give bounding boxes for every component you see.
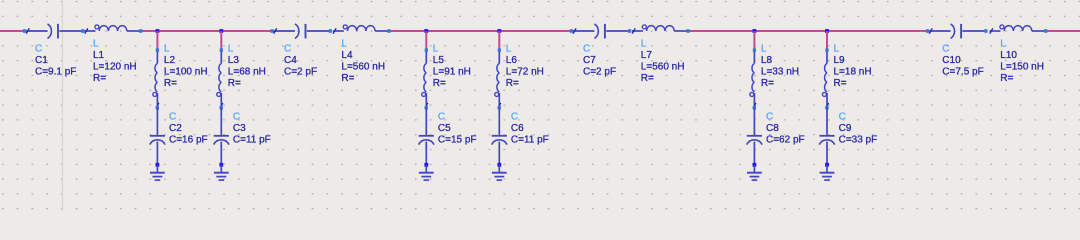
inductor L1 [85,25,143,34]
svg-text:R=: R= [761,78,774,89]
inductor L10 [990,25,1048,34]
C9 labels [839,112,878,146]
svg-text:C=11 pF: C=11 pF [511,135,549,146]
svg-text:L: L [341,38,347,49]
svg-text:L=120 nH: L=120 nH [93,61,137,72]
capacitor C1 [23,24,84,39]
inductor L8 [750,48,756,109]
svg-text:C: C [942,44,949,55]
svg-text:L=91 nH: L=91 nH [433,66,471,77]
wire shunt stub 1 [156,31,158,49]
svg-text:C7: C7 [583,55,596,66]
svg-text:C=11 pF: C=11 pF [233,135,271,146]
wire node 6 to C10 [827,30,928,32]
capacitor C7 [570,24,632,39]
svg-text:R=: R= [1000,73,1013,84]
svg-text:R=: R= [341,73,354,84]
capacitor C6 [492,108,507,167]
svg-text:C=9.1 pF: C=9.1 pF [35,67,76,78]
L9 labels [834,43,872,89]
ground 6 [820,165,835,180]
L1 labels [93,38,137,84]
junction node 3 [424,29,428,33]
svg-text:C6: C6 [511,123,524,134]
junction node 1 [156,29,160,33]
svg-text:C: C [438,112,445,123]
svg-text:C: C [35,44,42,55]
L7 labels [641,38,685,84]
L5 labels [433,43,471,89]
svg-text:C: C [169,112,176,123]
svg-text:R=: R= [834,78,847,89]
C7 labels [583,44,616,78]
ground 4 [492,165,507,180]
capacitor C8 [747,108,762,167]
svg-text:L: L [93,38,99,49]
svg-text:L2: L2 [164,55,176,66]
wire node 2 to C4 [221,30,271,32]
svg-text:C=2 pF: C=2 pF [284,67,317,78]
svg-text:L: L [761,43,767,54]
L10 labels [1000,38,1044,84]
C1 labels [35,44,76,78]
L4 labels [341,38,385,84]
svg-text:L: L [228,43,234,54]
ground 2 [214,165,229,180]
svg-text:C10: C10 [942,55,961,66]
capacitor C9 [819,108,834,167]
junction node 2 [219,29,223,33]
svg-text:C=2 pF: C=2 pF [583,67,616,78]
capacitor C2 [150,108,165,167]
wire node 3 to node 4 [426,30,499,32]
svg-text:C: C [284,44,291,55]
svg-text:L=150 nH: L=150 nH [1000,61,1044,72]
svg-text:L=68 nH: L=68 nH [228,66,266,77]
svg-text:L=72 nH: L=72 nH [506,66,544,77]
svg-text:L=100 nH: L=100 nH [164,66,208,77]
svg-text:R=: R= [433,78,446,89]
svg-text:C=15 pF: C=15 pF [438,135,477,146]
svg-text:C: C [583,44,590,55]
wire node 1 to node 2 [157,30,221,32]
svg-text:L7: L7 [641,50,653,61]
svg-text:C=7.5 pF: C=7.5 pF [942,67,983,78]
junction node 6 [825,29,829,33]
junction node 4 [497,29,501,33]
wire L1 to node 1 [141,30,157,32]
capacitor C10 [926,24,988,39]
wire node 4 to C7 [499,30,571,32]
inductor L2 [153,48,159,109]
svg-text:R=: R= [164,78,177,89]
svg-text:C=16 pF: C=16 pF [169,135,208,146]
inductor L9 [822,48,828,109]
svg-text:R=: R= [641,73,654,84]
L6 labels [506,43,544,89]
svg-text:L: L [834,43,840,54]
svg-text:L=560 nH: L=560 nH [641,61,685,72]
svg-text:C=33 pF: C=33 pF [839,135,878,146]
svg-text:C8: C8 [766,123,779,134]
wire output segment [1046,30,1080,32]
svg-text:C: C [839,112,846,123]
svg-text:L: L [164,43,170,54]
wire L4 to node 3 [389,30,426,32]
ground 3 [419,165,434,180]
C10 labels [942,44,983,78]
inductor L3 [217,48,223,109]
svg-text:C: C [766,112,773,123]
ground 1 [150,165,165,180]
wire shunt stub 6 [826,31,828,49]
svg-text:C5: C5 [438,123,451,134]
svg-text:C4: C4 [284,55,297,66]
wire node 5 to node 6 [754,30,827,32]
wire L7 to node 5 [688,30,754,32]
svg-text:C9: C9 [839,123,852,134]
svg-text:C: C [511,112,518,123]
wire shunt stub 3 [425,31,427,49]
wire shunt stub 2 [220,31,222,49]
svg-text:L=33 nH: L=33 nH [761,66,799,77]
inductor L7 [632,25,690,34]
svg-text:R=: R= [93,73,106,84]
svg-text:L1: L1 [93,50,105,61]
svg-text:C: C [233,112,240,123]
C6 labels [511,112,549,146]
C8 labels [766,112,805,146]
ground 5 [747,165,762,180]
svg-text:L: L [433,43,439,54]
svg-text:R=: R= [228,78,241,89]
svg-text:C2: C2 [169,123,182,134]
C2 labels [169,112,208,146]
svg-text:L3: L3 [228,55,240,66]
svg-text:L9: L9 [834,55,846,66]
C4 labels [284,44,317,78]
svg-text:C1: C1 [35,55,48,66]
capacitor C5 [419,108,434,167]
L8 labels [761,43,799,89]
inductor L5 [422,48,428,109]
svg-text:R=: R= [506,78,519,89]
svg-text:L=560 nH: L=560 nH [341,61,385,72]
L3 labels [228,43,266,89]
wire shunt stub 4 [498,31,500,49]
inductor L4 [333,25,391,34]
capacitor C4 [270,24,332,39]
capacitor C3 [214,108,229,167]
svg-text:L=18 nH: L=18 nH [834,66,872,77]
svg-text:L4: L4 [341,50,353,61]
svg-text:L: L [1000,38,1006,49]
svg-text:L10: L10 [1000,50,1017,61]
svg-text:L6: L6 [506,55,518,66]
svg-text:L: L [506,43,512,54]
svg-text:C=62 pF: C=62 pF [766,135,805,146]
svg-text:C3: C3 [233,123,246,134]
L2 labels [164,43,208,89]
svg-text:L: L [641,38,647,49]
svg-text:L8: L8 [761,55,773,66]
svg-text:L5: L5 [433,55,445,66]
C5 labels [438,112,477,146]
C3 labels [233,112,271,146]
wire input segment [0,30,24,32]
wire shunt stub 5 [753,31,755,49]
inductor L6 [495,48,501,109]
junction node 5 [753,29,757,33]
